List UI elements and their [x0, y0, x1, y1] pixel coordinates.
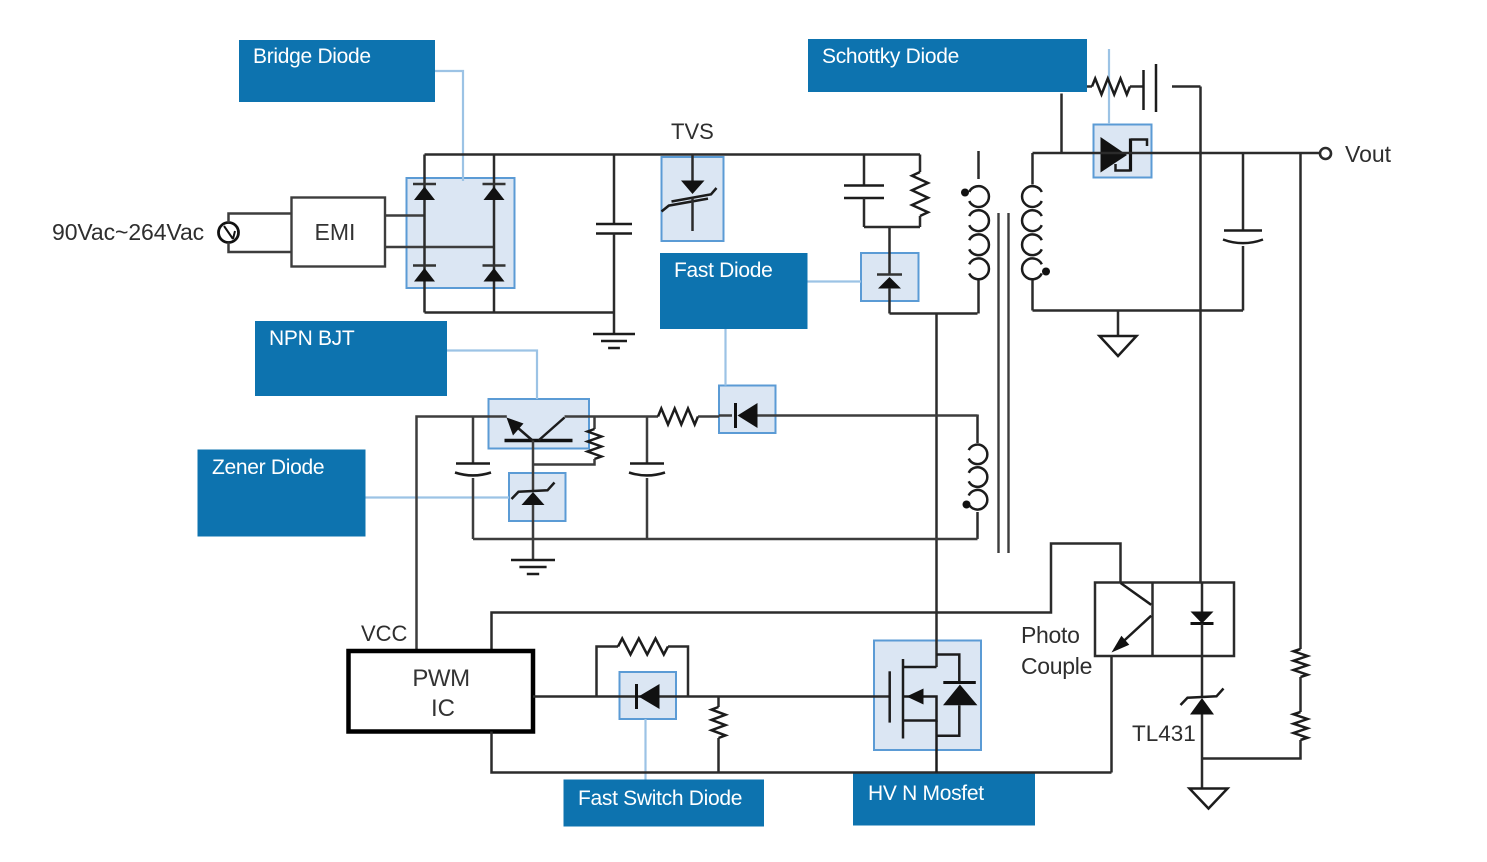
HV N mosfet highlight box: [874, 641, 981, 751]
TVS diode highlight box: [662, 157, 724, 241]
TVS diode: [662, 155, 717, 232]
label box HV N Mosfet: [853, 773, 1035, 826]
label box Zener Diode: [198, 450, 366, 537]
series fast diode D8: [719, 403, 978, 428]
svg-text:HV N Mosfet: HV N Mosfet: [868, 782, 984, 805]
AC source V1: [219, 223, 239, 243]
series fast diode highlight box: [719, 386, 776, 434]
fast diode D5: [877, 253, 902, 314]
EMI filter block: [292, 198, 386, 267]
label box Schottky Diode: [808, 39, 1087, 92]
feedback resistor R4: [1294, 712, 1308, 740]
wire snubber to primary bottom: [890, 312, 978, 315]
wire zener to ground: [532, 505, 535, 560]
svg-text:Vout: Vout: [1345, 141, 1392, 167]
svg-text:Couple: Couple: [1021, 653, 1092, 679]
wire HV DC bottom bus: [425, 311, 615, 314]
base resistor R5: [533, 417, 602, 465]
wire PWM gate drive: [533, 695, 890, 698]
wire PWM top rail to photo coupler: [492, 544, 1121, 652]
wire bridge right rail: [493, 155, 496, 313]
fast switch diode highlight box: [620, 672, 677, 719]
svg-text:VCC: VCC: [361, 621, 408, 646]
schottky diode D6: [1101, 137, 1148, 173]
label box Fast Switch Diode: [564, 780, 765, 827]
RC clamp capacitor C3: [1144, 64, 1157, 112]
svg-text:Fast Diode: Fast Diode: [674, 259, 773, 282]
connector Zener Diode label to zener: [366, 496, 510, 498]
ground zener: [511, 560, 555, 574]
ground TL431: [1190, 759, 1228, 809]
connector Fast Switch Diode label to diode: [644, 719, 646, 780]
feedback resistor R3: [1294, 649, 1308, 677]
bridge diode D4: [483, 266, 506, 282]
schottky diode highlight box: [1094, 125, 1152, 178]
wire AC source to EMI top: [229, 214, 292, 223]
gate pulldown resistor R8: [712, 697, 726, 773]
wire PWM bottom pin to gnd rail: [492, 732, 1112, 773]
svg-text:90Vac~264Vac: 90Vac~264Vac: [52, 219, 204, 245]
PWM IC U1: [349, 651, 534, 732]
NPN transistor Q1: [505, 418, 573, 441]
label box Bridge Diode: [239, 40, 435, 102]
fast switch diode D9: [637, 684, 660, 709]
connector Fast Diode label to series diode: [724, 329, 726, 386]
label box NPN BJT: [255, 321, 447, 396]
bridge diode D3: [413, 266, 436, 282]
wire bridge left rail: [423, 155, 426, 313]
wire RC clamp to feedback rail: [1172, 85, 1201, 88]
wire collector to VCC: [417, 417, 507, 652]
wire aux top link: [976, 415, 979, 417]
node Photo Couple label: [1021, 622, 1092, 679]
svg-text:Bridge Diode: Bridge Diode: [253, 45, 371, 68]
label box Fast Diode: [660, 253, 808, 329]
ground secondary: [1100, 311, 1137, 357]
svg-text:NPN BJT: NPN BJT: [269, 327, 355, 350]
transformer aux phase dot: [963, 501, 971, 509]
HV N mosfet Q2: [890, 655, 978, 773]
bridge rectifier highlight box: [407, 178, 515, 288]
svg-text:Photo: Photo: [1021, 622, 1080, 648]
wire snubber bottom: [864, 227, 920, 253]
wire LED cathode to TL431: [1201, 656, 1204, 697]
wire HV DC top bus: [425, 153, 921, 156]
svg-text:TVS: TVS: [671, 119, 714, 144]
transformer secondary winding: [1022, 153, 1042, 311]
TVS value label: [671, 119, 714, 144]
node 90Vac~264Vac input label: [52, 219, 204, 245]
svg-text:TL431: TL431: [1132, 721, 1196, 746]
snubber capacitor C2: [844, 155, 884, 228]
transformer primary pin: [977, 151, 980, 179]
svg-text:IC: IC: [431, 695, 455, 722]
transformer core: [999, 213, 1009, 553]
photo coupler LED: [1191, 583, 1214, 657]
wire emitter bus: [565, 415, 659, 418]
connector NPN BJT label to transistor: [447, 351, 537, 400]
node Vout label: [1345, 141, 1392, 167]
ground primary bulk: [593, 313, 635, 349]
wire photo coupler emitter to gnd rail: [1110, 656, 1113, 773]
wire base stem: [532, 441, 535, 492]
photo coupler U2 box: [1095, 583, 1234, 657]
connector Fast Diode label to snubber diode: [808, 280, 862, 282]
bulk capacitor C1: [596, 155, 632, 313]
snubber resistor R1: [912, 155, 928, 228]
wire EMI to bridge left rail: [385, 214, 425, 217]
connector Bridge Diode label to bridge: [435, 71, 463, 181]
gate parallel resistor R7: [597, 639, 689, 697]
RC clamp resistor R2: [1087, 79, 1144, 95]
transformer primary phase dot: [961, 189, 969, 197]
wire AC source to EMI bottom: [229, 243, 292, 253]
wire aux return rail: [473, 538, 978, 541]
photo coupler phototransistor: [1112, 583, 1152, 653]
Vout terminal: [1320, 148, 1331, 159]
bridge diode D2: [483, 184, 506, 200]
wire secondary output bus: [1033, 152, 1320, 155]
wire drain line: [935, 314, 938, 668]
wire EMI to bridge right rail: [385, 246, 494, 249]
connector Schottky Diode label to diode: [1108, 49, 1110, 124]
node VCC label: [361, 621, 408, 646]
wire schottky label stub: [1060, 94, 1063, 154]
svg-text:Zener Diode: Zener Diode: [212, 456, 324, 479]
series resistor R6: [658, 409, 719, 425]
transformer primary winding: [969, 186, 989, 313]
transformer aux winding: [969, 415, 988, 538]
transformer secondary phase dot: [1042, 268, 1050, 276]
svg-text:EMI: EMI: [315, 219, 356, 245]
node TL431 label: [1132, 721, 1196, 746]
wire secondary bottom bus: [1033, 309, 1244, 312]
zener diode D7: [512, 483, 555, 506]
right vcc capacitor C6: [629, 417, 665, 540]
svg-text:PWM: PWM: [412, 665, 469, 692]
bridge diode D1: [413, 184, 436, 200]
TL431 shunt regulator: [1181, 689, 1224, 759]
wire feedback divider tap: [1299, 153, 1302, 649]
wire feedback vertical rail: [1199, 87, 1202, 583]
output capacitor C4: [1223, 153, 1263, 311]
left vcc capacitor C5: [455, 417, 491, 540]
svg-text:Schottky Diode: Schottky Diode: [822, 45, 959, 68]
svg-text:Fast Switch Diode: Fast Switch Diode: [578, 787, 742, 810]
NPN transistor highlight box: [489, 399, 590, 449]
zener diode highlight box: [509, 473, 566, 521]
wire aux bottom link: [976, 538, 979, 540]
wire divider bottom to TL431 anode: [1202, 740, 1301, 759]
wire between divider resistors: [1299, 677, 1302, 712]
fast diode highlight box: [861, 253, 919, 301]
